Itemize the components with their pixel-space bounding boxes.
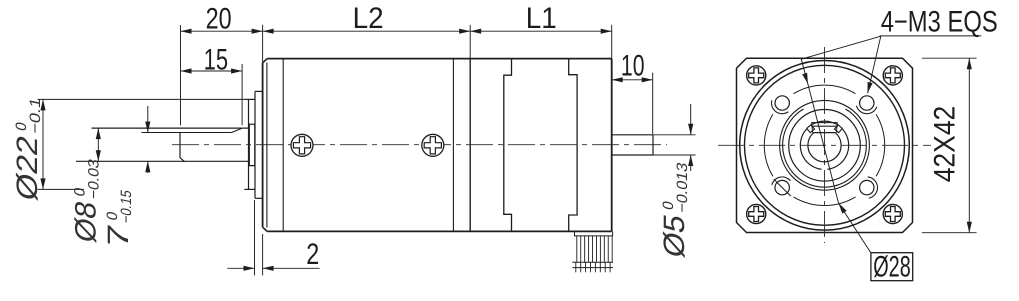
svg-text:L2: L2 bbox=[353, 2, 384, 35]
svg-text:Ø28: Ø28 bbox=[873, 251, 911, 284]
svg-text:Ø5: Ø5 bbox=[658, 212, 691, 261]
svg-text:−0.1: −0.1 bbox=[27, 96, 44, 136]
svg-text:20: 20 bbox=[206, 3, 232, 36]
svg-text:15: 15 bbox=[204, 43, 229, 76]
svg-text:−0.013: −0.013 bbox=[674, 161, 691, 215]
svg-text:L1: L1 bbox=[526, 2, 557, 35]
svg-text:42X42: 42X42 bbox=[929, 106, 962, 183]
svg-text:Ø8: Ø8 bbox=[70, 198, 103, 245]
svg-text:2: 2 bbox=[306, 238, 319, 271]
svg-text:10: 10 bbox=[621, 50, 645, 83]
svg-text:4−M3 EQS: 4−M3 EQS bbox=[881, 5, 998, 38]
svg-text:−0.03: −0.03 bbox=[86, 157, 103, 201]
svg-text:−0.15: −0.15 bbox=[118, 188, 135, 225]
svg-text:Ø22: Ø22 bbox=[11, 133, 44, 204]
